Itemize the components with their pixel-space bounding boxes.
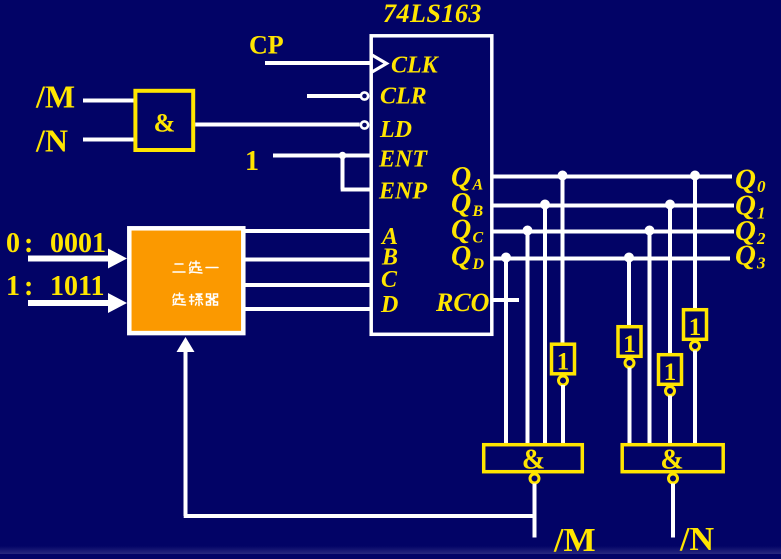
wire selector to pin C	[246, 283, 373, 287]
wire v8 QA drop to inverter N4	[693, 177, 697, 310]
wire G2 output down	[533, 484, 537, 538]
svg-text:RCO: RCO	[435, 288, 490, 317]
arrow input 1 to selector	[28, 300, 110, 306]
wire v5 QD drop to inverter N2	[627, 259, 631, 327]
svg-text:&: &	[154, 109, 176, 138]
selector text line2 (xuan-ze-qi)	[173, 293, 218, 306]
wire N1 to G2	[561, 385, 565, 445]
junction dot ENT branch	[339, 152, 347, 160]
junction dot v6 on QC	[645, 226, 655, 236]
svg-text:/N: /N	[679, 521, 714, 554]
inverter N2 box	[618, 327, 641, 357]
svg-text:1: 1	[664, 359, 677, 386]
arrow input 0 to selector	[28, 256, 110, 262]
wire v6 QC drop to G3	[648, 232, 652, 445]
wire /M to AND gate G1	[83, 99, 134, 103]
wire selector to pin A	[246, 229, 373, 233]
svg-text:A: A	[472, 177, 484, 194]
svg-text::: :	[24, 271, 33, 302]
svg-text:ENT: ENT	[378, 147, 428, 173]
junction dot v4 on QA	[558, 171, 568, 181]
wire v2 QC drop to G2	[526, 232, 530, 445]
wire branch to ENP	[341, 188, 371, 192]
svg-text:Q: Q	[735, 240, 756, 272]
svg-text:LD: LD	[379, 117, 412, 143]
svg-text:CLR: CLR	[380, 84, 427, 110]
svg-text:1: 1	[6, 271, 20, 302]
svg-text:ENP: ENP	[378, 179, 427, 205]
svg-text:0: 0	[757, 177, 766, 196]
inverter N3 box	[659, 355, 682, 385]
svg-text:&: &	[522, 445, 545, 476]
svg-text:1011: 1011	[50, 271, 104, 302]
svg-text:1: 1	[623, 331, 636, 358]
svg-text:/M: /M	[35, 79, 75, 115]
svg-text:C: C	[381, 267, 398, 293]
wire QB output line	[494, 204, 735, 208]
svg-text:0001: 0001	[50, 228, 106, 259]
and-gate G2 box	[484, 445, 583, 472]
bubble N3 output	[666, 387, 675, 396]
bubble G3 output	[669, 474, 678, 483]
junction dot v5 on QD	[624, 253, 634, 263]
svg-text:/M: /M	[553, 522, 596, 554]
svg-text:C: C	[473, 230, 484, 247]
wire v3 QB drop to G2	[543, 206, 547, 445]
svg-text:2: 2	[756, 229, 766, 248]
wire v7 QB drop to inverter N3	[668, 206, 672, 355]
svg-text:1: 1	[689, 314, 702, 341]
wire QC output line	[494, 230, 735, 234]
wire QA output line	[494, 175, 733, 179]
svg-text:1: 1	[557, 349, 570, 376]
inverter N1 box	[552, 344, 575, 374]
counter U1 74LS163 body	[371, 36, 492, 335]
svg-text:3: 3	[756, 254, 766, 273]
svg-text:CP: CP	[249, 31, 284, 60]
wire /N to AND gate G1	[83, 138, 134, 142]
svg-text:D: D	[472, 256, 485, 273]
bubble N4 output	[691, 342, 700, 351]
bubble CLR active-low	[361, 92, 368, 99]
svg-text:74LS163: 74LS163	[383, 0, 482, 28]
wire N2 to G3	[628, 368, 632, 445]
bubble LD active-low	[361, 121, 368, 128]
bubble G2 output	[530, 474, 539, 483]
svg-text:0: 0	[6, 228, 20, 259]
wire CP to CLK	[265, 61, 371, 65]
wire 1 to ENT	[273, 154, 371, 158]
inverter N4 box	[684, 310, 707, 340]
arrowhead feedback into selector	[177, 337, 195, 352]
junction dot v8 on QA	[690, 171, 700, 181]
wire branch vertical ENT to ENP	[341, 156, 345, 190]
clock edge triangle on CLK pin	[372, 55, 387, 72]
svg-text:&: &	[660, 445, 683, 476]
svg-text:1: 1	[245, 146, 259, 177]
and-gate G1 box	[135, 91, 193, 150]
mux selector box	[129, 228, 243, 333]
bubble N1 output	[559, 376, 568, 385]
svg-text:B: B	[472, 203, 484, 220]
bubble N2 output	[625, 359, 634, 368]
selector text line1 (er-xuan-yi)	[173, 261, 218, 273]
wire QD output line	[494, 257, 731, 261]
svg-text:1: 1	[757, 204, 766, 223]
wire G3 output down	[671, 484, 675, 538]
junction dot v3 on QB	[540, 200, 550, 210]
svg-text::: :	[24, 228, 33, 259]
wire N3 to G3	[668, 396, 672, 445]
svg-text:CLK: CLK	[391, 53, 440, 79]
wire CLR stub	[307, 94, 360, 98]
wire G1 output to LD	[195, 123, 360, 127]
svg-text:D: D	[380, 292, 398, 318]
wire v4 QA drop to inverter N1	[561, 177, 565, 345]
wire feedback vertical up to selector	[184, 350, 188, 516]
wire selector to pin B	[246, 258, 373, 262]
svg-text:Q: Q	[451, 241, 471, 272]
junction dot v1 on QD	[501, 253, 511, 263]
wire feedback horizontal /M to selector	[184, 514, 535, 518]
wire v1 QD drop to G2	[504, 259, 508, 445]
wire selector to pin D	[246, 307, 373, 311]
junction dot v2 on QC	[523, 226, 533, 236]
wire RCO stub	[494, 298, 520, 302]
wire N4 to G3	[693, 351, 697, 445]
junction dot v7 on QB	[665, 200, 675, 210]
and-gate G3 box	[622, 445, 723, 472]
svg-text:/N: /N	[35, 123, 68, 159]
